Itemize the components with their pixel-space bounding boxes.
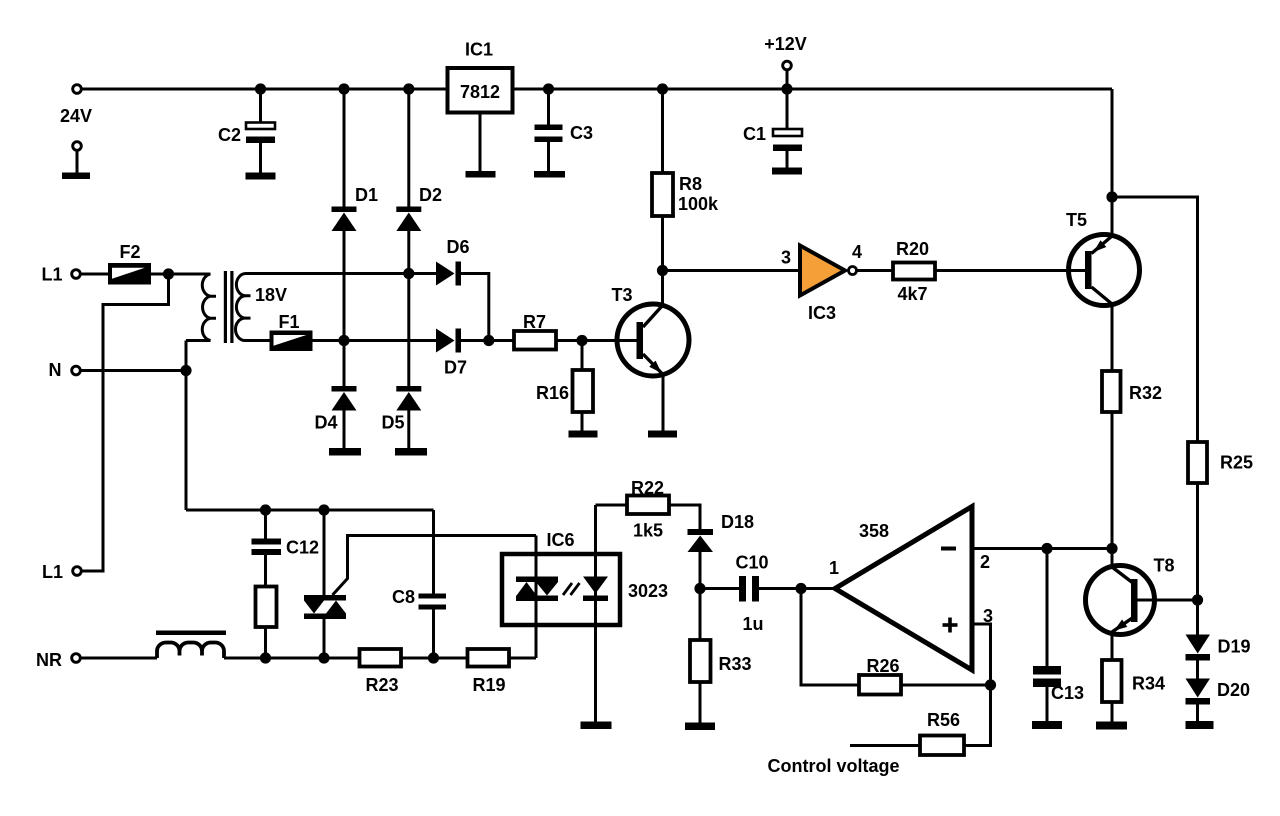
transistor T8 emitter diagonal bbox=[1112, 618, 1133, 633]
svg-text:D6: D6 bbox=[447, 237, 470, 257]
transistor T5 emitter arrow bbox=[1094, 240, 1107, 252]
wire T8 emitter through R34 to ground bbox=[1111, 632, 1114, 722]
node N junction bbox=[180, 365, 191, 376]
wire D4 anode to 0V bar bbox=[343, 410, 346, 448]
wire C1 stem bottom bbox=[786, 151, 789, 168]
capacitor C8 bbox=[419, 594, 447, 599]
optocoupler triac left triangle bbox=[517, 582, 537, 596]
svg-text:7812: 7812 bbox=[460, 82, 500, 102]
optocoupler LED triangle bbox=[583, 577, 608, 594]
svg-text:4k7: 4k7 bbox=[897, 284, 927, 304]
diode D4 bbox=[332, 386, 357, 392]
svg-text:R56: R56 bbox=[927, 710, 960, 730]
svg-text:R19: R19 bbox=[472, 675, 505, 695]
wire R25 to T8 base node bbox=[1196, 483, 1199, 600]
capacitor C2 electrolytic bbox=[246, 123, 275, 130]
wire R8 column rail to IC3 node bbox=[661, 89, 664, 271]
ground IC1 bbox=[466, 171, 496, 178]
resistor R25 bbox=[1188, 442, 1207, 483]
wire D19 to D20 bbox=[1196, 661, 1199, 679]
terminal NR bbox=[72, 654, 81, 663]
triac TRI1 bottom bar bbox=[304, 614, 346, 620]
capacitor C13 bbox=[1033, 666, 1061, 675]
wire R33 column to ground bbox=[699, 589, 702, 723]
wire control voltage input to R56 bbox=[850, 744, 920, 747]
wire D1 cathode to rail bbox=[343, 89, 346, 207]
wire dimmer top rail bbox=[186, 509, 434, 512]
optocoupler IC6 box bbox=[502, 554, 620, 625]
node +12V bbox=[781, 83, 792, 94]
transistor T5 base bar bbox=[1085, 251, 1092, 289]
svg-text:N: N bbox=[49, 360, 62, 380]
svg-text:IC6: IC6 bbox=[546, 530, 574, 550]
ground R16 bbox=[569, 431, 598, 438]
wire D7 to R7 bbox=[461, 339, 514, 342]
terminal +12V bbox=[783, 61, 792, 70]
svg-text:R32: R32 bbox=[1129, 383, 1162, 403]
resistor R26 bbox=[859, 675, 901, 695]
svg-text:C10: C10 bbox=[735, 553, 768, 573]
wire triac top bbox=[323, 510, 326, 595]
node pin3 R26 R56 bbox=[985, 679, 996, 690]
diode D5 bbox=[396, 386, 421, 392]
node NR triac bottom bbox=[318, 652, 329, 663]
wire D4 cathode to AC2 bbox=[343, 341, 346, 387]
svg-text:R25: R25 bbox=[1220, 453, 1253, 473]
capacitor C12 bbox=[252, 539, 282, 545]
wire inductor to R23 bbox=[224, 657, 360, 660]
svg-text:1: 1 bbox=[829, 558, 839, 578]
ground D4 bbox=[329, 448, 361, 456]
terminal L1 bottom bbox=[73, 567, 82, 576]
wire C2 stem bottom bbox=[259, 143, 262, 173]
svg-text:Control voltage: Control voltage bbox=[768, 756, 900, 776]
optocoupler triac bottom bar bbox=[516, 596, 558, 602]
wire T3 collector bbox=[661, 271, 664, 307]
ground R34 bbox=[1096, 722, 1127, 730]
resistor R16 bbox=[573, 370, 594, 412]
transistor T8 emitter arrow bbox=[1114, 620, 1127, 631]
transistor T5 base lead inside bbox=[1069, 269, 1085, 272]
wire top rail down right corner bbox=[1111, 89, 1114, 197]
transformer core bbox=[224, 271, 227, 343]
transistor T8 circle bbox=[1086, 566, 1155, 635]
optocoupler IC6 left pin line bbox=[535, 536, 538, 659]
resistor R33 bbox=[690, 640, 711, 682]
wire R22 to D18 bbox=[669, 505, 700, 529]
node C2 top bbox=[255, 83, 266, 94]
svg-text:IC3: IC3 bbox=[808, 303, 836, 323]
svg-text:F2: F2 bbox=[119, 242, 140, 262]
svg-text:R33: R33 bbox=[719, 654, 752, 674]
capacitor C3 bbox=[535, 125, 563, 131]
wire IC6 left pin column bbox=[535, 536, 538, 659]
wire 24V negative terminal stem bbox=[76, 151, 79, 173]
resistor unlabeled below C12 bbox=[256, 587, 277, 628]
node T8 base R25 D19 bbox=[1192, 594, 1203, 605]
wire D2 cathode to rail bbox=[407, 89, 410, 207]
transistor T3 emitter diagonal bbox=[643, 354, 663, 375]
ground D20 bbox=[1186, 721, 1214, 729]
node F2 output bbox=[163, 268, 174, 279]
wire N terminal to junction bbox=[82, 369, 187, 372]
resistor R19 bbox=[468, 649, 510, 667]
transistor T3 base lead inside bbox=[617, 339, 637, 342]
transistor T5 circle bbox=[1069, 235, 1140, 306]
svg-text:R23: R23 bbox=[365, 675, 398, 695]
transformer TR1 primary winding bbox=[186, 274, 211, 341]
ground C2 bbox=[246, 173, 276, 180]
wire C13 stem bottom bbox=[1046, 687, 1049, 721]
resistor R20 bbox=[893, 263, 935, 280]
svg-text:D4: D4 bbox=[315, 413, 338, 433]
wire IC6 right pin column to ground bbox=[594, 505, 597, 722]
wire triac gate to optocoupler bbox=[333, 536, 537, 596]
node D1 top bbox=[338, 83, 349, 94]
triac TRI1 left triangle bbox=[304, 601, 324, 614]
wire node to C10 bbox=[700, 587, 739, 590]
svg-text:D7: D7 bbox=[444, 358, 467, 378]
svg-text:C3: C3 bbox=[570, 123, 593, 143]
wire R19 to IC6 pin bbox=[509, 657, 536, 660]
op-amp plus sign bbox=[943, 623, 958, 627]
wire D1 anode down to AC2 bbox=[343, 231, 346, 341]
wire C2 stem top bbox=[259, 89, 262, 123]
wire IC3 input bbox=[663, 269, 801, 272]
node output C13 bbox=[1041, 543, 1052, 554]
diode D7 bbox=[436, 329, 455, 353]
optocoupler triac right triangle bbox=[536, 582, 558, 596]
wire R7 to T3 base bbox=[556, 339, 617, 342]
svg-text:358: 358 bbox=[859, 521, 889, 541]
wire secondary bottom to F1 bbox=[245, 339, 270, 342]
terminal L1 top bbox=[72, 270, 81, 279]
wire L1 to fuse F2 bbox=[82, 273, 109, 276]
inductor L1 coil bbox=[157, 643, 224, 659]
node T3 base R16 bbox=[576, 335, 587, 346]
node D18 C10 R33 bbox=[694, 583, 705, 594]
wire C1 stem top bbox=[786, 89, 789, 129]
svg-text:R20: R20 bbox=[896, 239, 929, 259]
svg-text:D5: D5 bbox=[382, 413, 405, 433]
wire F2 to junction bbox=[151, 273, 211, 276]
svg-text:D20: D20 bbox=[1217, 680, 1250, 700]
wire feedback down from input node bbox=[801, 589, 859, 686]
optocoupler light slashes bbox=[563, 583, 580, 595]
node D2 top bbox=[403, 83, 414, 94]
wire C10 to op-amp input node bbox=[759, 587, 801, 590]
resistor R34 bbox=[1102, 660, 1122, 702]
node NR C8 bottom bbox=[428, 652, 439, 663]
inverter IC3 triangle bbox=[800, 246, 845, 296]
wire R26 to pin3 node bbox=[901, 684, 991, 687]
inductor coil ticks bbox=[180, 649, 203, 656]
svg-text:C2: C2 bbox=[218, 125, 241, 145]
wire IC1 ground pin bbox=[479, 112, 482, 171]
svg-text:1k5: 1k5 bbox=[633, 521, 663, 541]
capacitor C1 electrolytic bbox=[773, 129, 802, 136]
wire D2 anode to AC1 and D5 cathode bbox=[407, 231, 410, 387]
svg-text:R7: R7 bbox=[523, 312, 546, 332]
triac TRI1 right triangle bbox=[326, 601, 346, 614]
node C3 top bbox=[543, 83, 554, 94]
diode D18 bbox=[688, 529, 714, 535]
optocoupler IC6 right pin line bbox=[594, 505, 597, 722]
transistor T3 circle bbox=[617, 304, 689, 376]
diode D2 bbox=[396, 207, 421, 213]
wire D20 to ground bbox=[1196, 704, 1199, 721]
node op-amp input feedback bbox=[795, 583, 806, 594]
wire IC6 to R22 bbox=[596, 504, 628, 507]
svg-text:C1: C1 bbox=[743, 124, 766, 144]
wire pin3 node down to R56 bbox=[964, 685, 991, 746]
ground D5 bbox=[395, 448, 427, 456]
svg-text:T8: T8 bbox=[1153, 556, 1174, 576]
inductor core bar bbox=[156, 631, 226, 636]
wire C8 stem top bbox=[432, 510, 435, 594]
transistor T3 collector diagonal bbox=[643, 306, 662, 327]
resistor R23 bbox=[360, 649, 402, 667]
ground C3 bbox=[534, 171, 565, 178]
wire R16 column bbox=[581, 341, 584, 431]
wire primary bottom to N junction and down to dimmer bbox=[185, 341, 188, 511]
resistor R56 bbox=[920, 736, 964, 756]
wire +12V terminal stem bbox=[786, 70, 789, 89]
node T5 emitter rail bbox=[1106, 191, 1117, 202]
transistor T3 emitter arrow bbox=[649, 361, 661, 373]
svg-text:R34: R34 bbox=[1132, 674, 1165, 694]
wire D19 column bbox=[1196, 600, 1199, 635]
svg-text:L1: L1 bbox=[41, 265, 62, 285]
wire D18 to C10 node bbox=[699, 552, 702, 589]
inverter IC3 output bubble bbox=[849, 267, 857, 275]
svg-text:R22: R22 bbox=[631, 478, 664, 498]
wire T8 base bbox=[1155, 599, 1198, 602]
ground R33 bbox=[685, 723, 715, 731]
node AC2 D4 cathode bbox=[338, 335, 349, 346]
node R8 top bbox=[657, 83, 668, 94]
svg-text:3: 3 bbox=[781, 248, 791, 268]
svg-text:3023: 3023 bbox=[628, 581, 668, 601]
ground T3 emitter bbox=[648, 431, 677, 438]
svg-text:IC1: IC1 bbox=[465, 40, 493, 60]
resistor R32 bbox=[1102, 371, 1121, 412]
diode D19 bbox=[1186, 635, 1211, 654]
node D6 D7 output bbox=[483, 335, 494, 346]
op-amp U1 358 triangle bbox=[835, 507, 972, 671]
wire C3 stem top bbox=[547, 89, 550, 125]
svg-text:T3: T3 bbox=[611, 285, 632, 305]
wire C13 stem top bbox=[1046, 549, 1049, 667]
svg-text:2: 2 bbox=[980, 552, 990, 572]
wire F1 to D7 bbox=[312, 339, 436, 342]
wire T5 emitter to rail node bbox=[1111, 197, 1114, 236]
wire D5 anode to 0V bar bbox=[407, 410, 410, 448]
wire C12 stem top bbox=[264, 510, 267, 539]
wire T8 collector bbox=[1111, 549, 1114, 568]
node T8 collector R32 bbox=[1106, 543, 1117, 554]
svg-text:4: 4 bbox=[852, 242, 862, 262]
optocoupler triac top bar bbox=[516, 577, 558, 583]
ground C1 bbox=[772, 168, 802, 175]
wire op-amp pin 3 bbox=[972, 624, 991, 685]
ground IC6 bbox=[581, 722, 612, 730]
diode D1 bbox=[332, 207, 357, 213]
transistor T3 base bar bbox=[637, 322, 644, 359]
op-amp minus sign bbox=[941, 547, 956, 551]
node dimmer triac top bbox=[318, 504, 329, 515]
terminal 24V positive bbox=[73, 85, 82, 94]
terminal 24V negative bbox=[73, 142, 82, 151]
optocoupler LED cathode bar bbox=[583, 596, 608, 602]
svg-text:D18: D18 bbox=[721, 512, 754, 532]
terminal N bbox=[72, 366, 81, 375]
wire node to op-amp pin 1 bbox=[801, 587, 835, 590]
fuse F1 bbox=[270, 331, 313, 352]
fuse F2 bbox=[108, 263, 151, 285]
svg-text:NR: NR bbox=[36, 650, 62, 670]
transistor T8 base bar bbox=[1131, 579, 1138, 622]
svg-text:D2: D2 bbox=[419, 185, 442, 205]
resistor R22 bbox=[627, 496, 669, 515]
node NR C12 bottom bbox=[260, 652, 271, 663]
wire R23 to R19 bbox=[401, 657, 468, 660]
wire R20 to T5 base bbox=[935, 269, 1069, 272]
transistor T5 emitter diagonal bbox=[1092, 236, 1113, 254]
capacitor C10 bbox=[739, 576, 746, 602]
svg-text:D19: D19 bbox=[1218, 637, 1251, 657]
wire node to R25 column bbox=[1112, 197, 1198, 442]
wire branch down from F2 junction bbox=[83, 274, 169, 571]
diode D6 bbox=[436, 262, 455, 286]
svg-text:L1: L1 bbox=[42, 562, 63, 582]
wire 18V secondary top to D6 bbox=[245, 272, 436, 275]
diode D20 bbox=[1186, 679, 1211, 698]
resistor R8 bbox=[652, 173, 673, 216]
resistor R7 bbox=[514, 331, 556, 350]
wire C3 stem bottom bbox=[547, 142, 550, 171]
svg-text:R16: R16 bbox=[536, 383, 569, 403]
wire T3 emitter to ground bbox=[662, 375, 665, 431]
wire C8 stem bottom bbox=[432, 610, 435, 659]
node T3 collector IC3 input bbox=[657, 265, 668, 276]
svg-text:C12: C12 bbox=[286, 538, 319, 558]
transistor T5 collector diagonal bbox=[1092, 287, 1113, 304]
svg-text:+12V: +12V bbox=[764, 34, 807, 54]
svg-text:3: 3 bbox=[983, 606, 993, 626]
svg-text:24V: 24V bbox=[60, 106, 92, 126]
svg-text:T5: T5 bbox=[1066, 210, 1087, 230]
wire op-amp output to T8 node bbox=[972, 547, 1112, 550]
ground C13 bbox=[1032, 721, 1062, 729]
node dimmer C12 top bbox=[260, 504, 271, 515]
wire T5 collector through R32 to T8 node bbox=[1111, 304, 1114, 549]
wire +24V top rail bbox=[83, 88, 1113, 91]
voltage regulator IC1 7812 bbox=[448, 68, 513, 113]
svg-text:C8: C8 bbox=[392, 587, 415, 607]
wire D6 out and corner down bbox=[461, 274, 489, 341]
wire C12 to resistor and NR rail bbox=[264, 555, 267, 658]
ground 24V negative bbox=[62, 173, 90, 180]
svg-text:18V: 18V bbox=[255, 285, 287, 305]
svg-text:D1: D1 bbox=[355, 185, 378, 205]
wire NR terminal to inductor bbox=[82, 657, 158, 660]
svg-text:F1: F1 bbox=[278, 312, 299, 332]
svg-text:100k: 100k bbox=[678, 194, 719, 214]
svg-text:1u: 1u bbox=[742, 614, 763, 634]
transistor T8 base lead inside bbox=[1138, 599, 1155, 602]
node AC1 D2 anode bbox=[403, 268, 414, 279]
svg-text:R8: R8 bbox=[679, 174, 702, 194]
triac TRI1 top bar bbox=[304, 595, 346, 601]
transformer TR1 secondary winding 18V bbox=[236, 274, 246, 341]
svg-text:R26: R26 bbox=[866, 656, 899, 676]
svg-text:C13: C13 bbox=[1051, 683, 1084, 703]
wire triac bottom bbox=[323, 619, 326, 659]
wire IC3 output to R20 bbox=[857, 269, 894, 272]
transistor T8 collector diagonal bbox=[1112, 567, 1133, 583]
